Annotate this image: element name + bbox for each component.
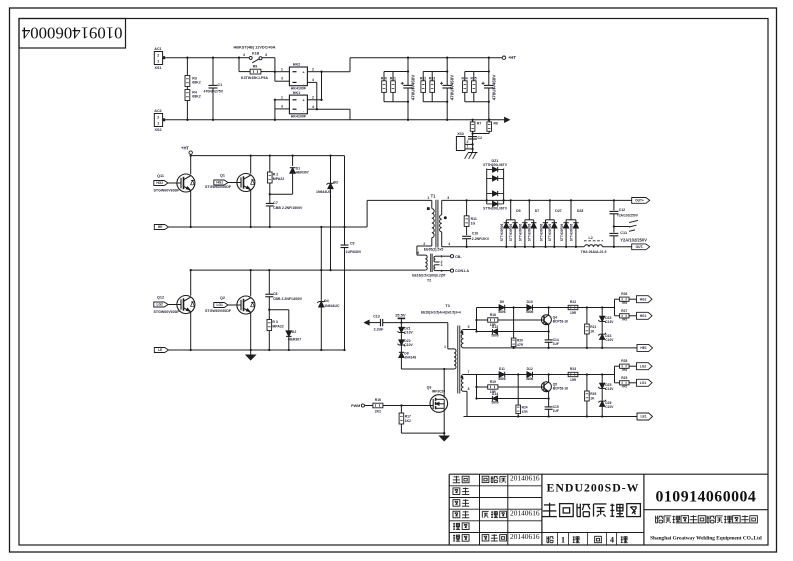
svg-text:7: 7 — [468, 370, 470, 374]
svg-text:HG1: HG1 — [640, 314, 647, 318]
svg-text:10R: 10R — [570, 311, 577, 315]
svg-text:2: 2 — [157, 116, 159, 120]
svg-text:STTH30R06: STTH30R06 — [509, 223, 513, 241]
svg-text:3: 3 — [281, 77, 283, 81]
electrolytic capacitor C4 with bleeders R32 R33 — [446, 58, 448, 86]
svg-text:5806: 5806 — [526, 377, 533, 381]
resistor R3 — [186, 58, 188, 76]
title block rows — [449, 485, 542, 487]
svg-text:3: 3 — [447, 196, 449, 200]
wire upper rail +HT — [191, 155, 345, 157]
dual diode DZ2 freewheel — [487, 193, 504, 195]
svg-text:Q11: Q11 — [157, 174, 164, 178]
net HE1 — [637, 344, 653, 351]
wire output branch vertical — [614, 366, 616, 383]
svg-text:47R: 47R — [517, 343, 524, 347]
svg-text:R29: R29 — [621, 376, 627, 380]
svg-text:IRF3C20: IRF3C20 — [432, 390, 445, 394]
connector XS3 — [456, 137, 465, 151]
svg-text:D9: D9 — [500, 300, 504, 304]
svg-text:C9: C9 — [350, 242, 355, 246]
svg-text:C2: C2 — [478, 136, 483, 140]
svg-text:HK4100F: HK4100F — [291, 115, 307, 119]
svg-text:CB-: CB- — [455, 255, 462, 259]
diode D9 — [504, 305, 506, 311]
T1 phase mark secondary — [444, 216, 447, 219]
svg-text:STTH30R06: STTH30R06 — [560, 223, 564, 241]
T2 core — [430, 254, 432, 272]
svg-text:HG2: HG2 — [640, 297, 647, 301]
resistor R22 — [568, 305, 578, 309]
svg-text:2.2NF/2KV: 2.2NF/2KV — [472, 237, 490, 241]
svg-text:4: 4 — [610, 536, 614, 545]
svg-text:LG1: LG1 — [640, 381, 647, 385]
wire driver rail LG2 — [464, 374, 615, 376]
svg-text:D27: D27 — [555, 209, 561, 213]
svg-text:HK1: HK1 — [293, 91, 300, 95]
wire contact output to bus — [322, 71, 351, 73]
svg-text:5: 5 — [468, 325, 470, 329]
net OUT+ — [632, 198, 650, 204]
svg-text:10R: 10R — [570, 378, 577, 382]
svg-text:HK2: HK2 — [293, 63, 300, 67]
drawing title (main circuit diagram) — [544, 504, 555, 506]
svg-text:.: . — [303, 82, 304, 86]
svg-text:1: 1 — [467, 145, 469, 149]
svg-text:1: 1 — [441, 254, 443, 258]
T2 secondary winding b — [434, 265, 435, 271]
svg-text:Q1: Q1 — [220, 174, 225, 178]
svg-text:R32: R32 — [420, 76, 426, 80]
T1 secondary — [441, 200, 443, 215]
svg-text:C10V: C10V — [605, 405, 614, 409]
wire driver rail HG2 — [477, 307, 615, 309]
svg-text:15.5V: 15.5V — [395, 312, 406, 317]
svg-text:C8: C8 — [273, 292, 278, 296]
svg-text:2: 2 — [312, 67, 314, 71]
resistor R11 snubber out — [465, 199, 467, 201]
svg-text:STTH30R06: STTH30R06 — [539, 223, 543, 241]
svg-text:7R5: 7R5 — [621, 385, 627, 389]
svg-text:LE1: LE1 — [641, 415, 647, 419]
svg-text:1: 1 — [281, 95, 283, 99]
title block outline — [449, 473, 768, 475]
svg-text:K3TW45KJ-P5A: K3TW45KJ-P5A — [241, 76, 268, 80]
net HG1 gate Q1 — [214, 180, 228, 185]
resistor R17 gate pulldown — [400, 404, 402, 406]
svg-text:3: 3 — [281, 105, 283, 109]
names column entries — [482, 476, 489, 482]
svg-text:D4: D4 — [324, 299, 329, 303]
capacitor C14 — [548, 332, 550, 340]
electrolytic capacitor C5 with bleeders R34 R35 — [488, 58, 490, 86]
svg-text:D10: D10 — [527, 300, 533, 304]
svg-text:EE16(0.5x2)60(0.2)5T: EE16(0.5x2)60(0.2)5T — [412, 274, 447, 278]
diode D13 — [477, 331, 549, 333]
svg-text:R31: R31 — [390, 76, 396, 80]
IGBT Q1 — [250, 154, 252, 156]
svg-text:MPA22: MPA22 — [273, 177, 284, 181]
svg-text:R11: R11 — [471, 217, 477, 221]
capacitor C15 — [548, 399, 550, 407]
svg-text:1: 1 — [561, 536, 565, 545]
svg-text:20140616: 20140616 — [510, 532, 540, 541]
svg-text:1UF/630V: 1UF/630V — [346, 250, 362, 254]
net LE lower rail — [154, 348, 168, 353]
resistor R19 — [477, 386, 488, 388]
svg-text:T1: T1 — [431, 194, 437, 199]
svg-text:T3: T3 — [445, 304, 449, 308]
T3 secondary upper — [461, 330, 463, 348]
svg-text:R17: R17 — [405, 414, 411, 418]
wire node to relays — [274, 58, 276, 81]
svg-text:20140616: 20140616 — [510, 508, 540, 517]
svg-text:R 2: R 2 — [273, 172, 278, 176]
svg-text:HBKST(4B) 12VDC/40A: HBKST(4B) 12VDC/40A — [234, 46, 276, 50]
svg-text:2: 2 — [157, 54, 159, 58]
wire relay bottom to bus — [317, 108, 350, 110]
svg-text:C10V: C10V — [404, 331, 413, 335]
document number box top-left (rotated) — [19, 19, 126, 49]
wire source return — [401, 432, 444, 434]
MOSFET Q3 — [443, 369, 445, 398]
wire lower rail — [191, 269, 426, 271]
page row: page 1 of 4 — [546, 536, 548, 542]
svg-text:2: 2 — [467, 140, 469, 144]
svg-text:4: 4 — [312, 105, 314, 109]
svg-text:1UF: 1UF — [553, 409, 559, 413]
svg-text:OUT+: OUT+ — [635, 199, 644, 203]
svg-text:R33: R33 — [429, 76, 435, 80]
terminal CON1.A — [450, 269, 453, 272]
zener ('DZ5', 'C13V') — [601, 373, 603, 375]
resistor R18 — [477, 319, 488, 321]
wire relay contacts parallel v1 — [316, 82, 318, 109]
net LG2 gate Q12 — [154, 302, 168, 307]
power ground lower bridge — [250, 350, 252, 355]
connector XS1 (AC input top) — [154, 52, 162, 65]
svg-text:OUT-: OUT- — [636, 245, 644, 249]
svg-text:4: 4 — [312, 78, 314, 82]
net LG1 — [637, 379, 653, 386]
svg-text:+HT: +HT — [181, 145, 189, 150]
svg-text:XS2: XS2 — [155, 128, 162, 132]
resistor R7 (Y branch) — [472, 120, 474, 122]
diode D10 — [532, 305, 534, 311]
wire output branch vertical — [614, 299, 616, 316]
svg-text:+HT: +HT — [508, 55, 516, 60]
resistor R32 — [422, 72, 424, 81]
zener ('DZ4', 'C10V') — [601, 322, 603, 335]
capacitor C7 snubber — [266, 202, 274, 204]
svg-text:R9: R9 — [253, 64, 258, 68]
zener ('DZ6', 'C10V') — [601, 389, 603, 402]
svg-text:470UF/450V: 470UF/450V — [450, 74, 455, 101]
connector XS2 (AC input bottom) — [154, 114, 162, 127]
T3 core — [457, 326, 459, 394]
svg-text:D3: D3 — [334, 181, 339, 185]
svg-text:D7: D7 — [535, 209, 540, 213]
net HG2 gate Q11 — [154, 181, 168, 186]
svg-text:3: 3 — [441, 263, 443, 267]
svg-text:PWM: PWM — [351, 404, 360, 408]
diode pair D27 — [549, 199, 551, 201]
capacitor C9 dc-block — [344, 156, 346, 245]
svg-text:MPA22: MPA22 — [272, 324, 283, 328]
svg-text:1N644UC: 1N644UC — [324, 304, 340, 308]
relay HK1 — [289, 95, 307, 114]
svg-text:4: 4 — [448, 242, 450, 246]
T1 phase mark primary — [427, 207, 430, 210]
net PWM input — [361, 404, 364, 407]
svg-text:K1B: K1B — [252, 52, 260, 56]
diode pair D28 — [570, 199, 572, 201]
resistor R25 bleed — [586, 373, 588, 375]
svg-text:R7: R7 — [477, 122, 481, 126]
svg-text:STTH30R06: STTH30R06 — [528, 223, 532, 241]
svg-text:STTH30R06: STTH30R06 — [548, 223, 552, 241]
svg-text:R35: R35 — [470, 76, 476, 80]
svg-text:C13V: C13V — [605, 387, 614, 391]
electrolytic capacitor C3 with bleeders R30 R31 — [407, 58, 409, 86]
resistor R23 — [568, 372, 578, 376]
wire relay contacts parallel v2 — [321, 72, 323, 100]
svg-text:C11: C11 — [620, 231, 627, 235]
svg-text:R16: R16 — [375, 398, 381, 402]
earth ground output filter — [613, 225, 615, 227]
svg-text:HER307: HER307 — [296, 171, 309, 175]
inductor L2 — [584, 240, 603, 242]
svg-text:C7: C7 — [273, 201, 278, 205]
wire secondary positive line — [442, 199, 632, 201]
resistor R4 — [186, 87, 188, 90]
net OUT- — [632, 244, 650, 250]
svg-text:C10V: C10V — [605, 338, 614, 342]
capacitor C13 series — [369, 322, 380, 324]
svg-text:HE: HE — [158, 225, 163, 229]
svg-text:2K2: 2K2 — [375, 409, 381, 413]
svg-text:1: 1 — [157, 122, 159, 126]
page row separators — [557, 533, 559, 546]
svg-text:R34: R34 — [461, 76, 467, 80]
svg-text:XS3: XS3 — [457, 132, 464, 136]
svg-text:5806: 5806 — [498, 377, 505, 381]
resistor R9 bypass — [238, 58, 240, 72]
transistor Q5 — [547, 373, 549, 375]
svg-text:R30: R30 — [381, 76, 387, 80]
svg-text:R22: R22 — [570, 300, 576, 304]
capacitor C11 output filter — [609, 232, 618, 234]
IGBT Q12 — [190, 269, 192, 271]
wire DC bus minus bottom — [350, 119, 505, 121]
resistor R8 (Y branch) — [488, 120, 490, 122]
svg-text:Y2A/102/250V: Y2A/102/250V — [620, 238, 647, 243]
svg-text:LG2: LG2 — [640, 364, 647, 368]
svg-text:68K2: 68K2 — [192, 95, 200, 99]
company name Chinese — [655, 516, 657, 523]
svg-text:R8: R8 — [494, 122, 498, 126]
svg-text:D5: D5 — [516, 209, 521, 213]
svg-text:BCP53-16: BCP53-16 — [553, 387, 568, 391]
wire N input bottom — [165, 119, 350, 121]
resistor R21 bleed — [586, 306, 588, 308]
svg-text:7R5: 7R5 — [621, 318, 627, 322]
svg-text:Q2: Q2 — [220, 296, 225, 300]
svg-text:C12: C12 — [619, 208, 625, 212]
transistor Q4 — [547, 306, 549, 308]
svg-text:D13: D13 — [492, 325, 498, 329]
svg-text:Y2A/102/250V: Y2A/102/250V — [617, 213, 639, 217]
resistor R34 — [464, 72, 466, 81]
svg-text:R23: R23 — [570, 367, 576, 371]
svg-text:R26: R26 — [621, 292, 627, 296]
T3 secondary lower — [461, 375, 463, 392]
resistor R20 vertical — [512, 306, 514, 308]
svg-text:STGW60V60DF: STGW60V60DF — [205, 185, 232, 189]
zener DZ1 aux — [400, 323, 402, 328]
T2 secondary winding a — [434, 256, 435, 262]
svg-text:D28: D28 — [577, 209, 583, 213]
wire snubber node lower — [269, 309, 289, 311]
svg-text:010914060004: 010914060004 — [656, 489, 757, 506]
svg-text:470UF/450V: 470UF/450V — [491, 74, 496, 101]
wire output negative rail — [442, 246, 584, 248]
svg-text:R18: R18 — [490, 313, 496, 317]
resistor R24 vertical — [517, 373, 519, 375]
svg-text:D2: D2 — [292, 330, 297, 334]
net arrow 15V supply in — [364, 320, 369, 325]
svg-text:2.2UF: 2.2UF — [374, 328, 385, 332]
capacitor C12 output filter — [613, 199, 615, 201]
svg-text:L2: L2 — [589, 236, 593, 240]
svg-text:47R: 47R — [522, 410, 529, 414]
svg-text:1: 1 — [427, 196, 429, 200]
svg-text:Q12: Q12 — [157, 296, 164, 300]
svg-text:4: 4 — [441, 269, 443, 273]
earth ground (input filter) — [468, 152, 478, 154]
svg-text:5806: 5806 — [491, 333, 498, 337]
svg-text:EE28(3x0.5)4x4(3x0.5)3+4: EE28(3x0.5)4x4(3x0.5)3+4 — [421, 310, 461, 314]
transil D3 — [329, 154, 331, 156]
wire DC bus plus top — [350, 57, 502, 59]
svg-text:R28: R28 — [621, 359, 627, 363]
wire zener chain to drain node — [401, 368, 451, 370]
svg-text:20140616: 20140616 — [510, 473, 540, 482]
svg-text:HER307: HER307 — [288, 338, 301, 342]
relay HK2 — [289, 67, 307, 86]
svg-text:.: . — [303, 108, 304, 112]
resistor R28 — [615, 365, 620, 367]
diode pair D5 — [510, 199, 512, 201]
svg-text:BCP53-16: BCP53-16 — [553, 320, 568, 324]
svg-text:1: 1 — [157, 60, 159, 64]
svg-text:STGW60V60DF: STGW60V60DF — [154, 310, 181, 314]
svg-text:STGW60V60DF: STGW60V60DF — [205, 309, 232, 313]
svg-text:XS1: XS1 — [155, 66, 162, 70]
terminal CB- — [450, 255, 453, 258]
capacitor C10 snubber out — [462, 235, 471, 237]
svg-text:8: 8 — [468, 387, 470, 391]
net LG2 — [637, 363, 653, 370]
svg-text:3: 3 — [265, 53, 267, 57]
svg-text:4: 4 — [243, 53, 245, 57]
svg-text:D12: D12 — [527, 367, 533, 371]
svg-text:STTH30R06: STTH30R06 — [500, 223, 504, 241]
svg-text:010914060004: 010914060004 — [21, 23, 122, 42]
resistor R35 — [473, 72, 475, 81]
resistor R26 — [615, 298, 620, 300]
net HE mid rail — [154, 225, 168, 230]
svg-text:1G: 1G — [471, 222, 476, 226]
svg-text:1: 1 — [281, 67, 283, 71]
transil D4 — [320, 227, 322, 302]
zener ('DZ3', 'C13V') — [601, 306, 603, 308]
svg-text:D11: D11 — [499, 367, 505, 371]
svg-text:2: 2 — [423, 242, 425, 246]
svg-text:STTH200L06TV: STTH200L06TV — [483, 207, 508, 211]
svg-text:AC1: AC1 — [154, 47, 161, 51]
svg-text:CON1.A: CON1.A — [455, 269, 469, 273]
svg-text:R27: R27 — [621, 309, 627, 313]
wire driver left vertical — [476, 375, 478, 399]
net LG1 gate Q2 — [214, 303, 228, 308]
svg-text:C10V: C10V — [404, 343, 413, 347]
svg-text:1K: 1K — [590, 329, 595, 333]
diode D14 — [477, 398, 549, 400]
resistor R16 gate — [373, 403, 383, 408]
wire T3 pin5 riser — [476, 308, 478, 330]
capacitor C2 — [468, 136, 477, 138]
svg-text:ENDU200SD-W: ENDU200SD-W — [547, 480, 640, 494]
title block columns — [479, 474, 481, 545]
wire snubber node — [270, 193, 293, 195]
svg-text:2: 2 — [312, 95, 314, 99]
svg-text:STTH30R06: STTH30R06 — [570, 223, 574, 241]
resistor R29 — [615, 382, 620, 384]
svg-text:1N644UC: 1N644UC — [316, 190, 332, 194]
resistor R33 — [431, 72, 433, 81]
svg-text:CBB 2.2NF/1600V: CBB 2.2NF/1600V — [273, 297, 303, 301]
diode D11 — [504, 372, 506, 378]
wire L input top — [165, 57, 239, 59]
net LE1 — [637, 413, 653, 420]
zener DZ2 aux — [400, 333, 402, 340]
svg-text:C1: C1 — [218, 83, 223, 87]
net HG2 — [637, 296, 653, 303]
svg-text:1: 1 — [444, 345, 446, 349]
svg-text:1K: 1K — [590, 396, 595, 400]
svg-text:EE65(2).5x5: EE65(2).5x5 — [424, 247, 444, 251]
T1 core — [435, 200, 437, 248]
wire mid rail HE — [169, 226, 368, 228]
svg-text:1N4148: 1N4148 — [404, 356, 416, 360]
net HG1 — [637, 312, 653, 319]
svg-text:470NF/275V: 470NF/275V — [204, 90, 224, 94]
svg-text:1K2: 1K2 — [405, 419, 411, 423]
terminal +HT bus — [502, 56, 505, 59]
wire driver bottom rail — [464, 347, 638, 349]
svg-text:Q3: Q3 — [427, 385, 432, 389]
svg-text:STGW60V60DF: STGW60V60DF — [154, 189, 181, 193]
svg-text:HE1: HE1 — [640, 346, 647, 350]
svg-text:CBB 2.2NF/1600V: CBB 2.2NF/1600V — [273, 206, 303, 210]
svg-text:STTH200L06TV: STTH200L06TV — [483, 163, 508, 167]
svg-text:AC2: AC2 — [154, 109, 161, 113]
svg-text:LG1: LG1 — [217, 303, 224, 307]
resistor R5 snubber — [267, 320, 272, 331]
svg-text:R19: R19 — [490, 380, 496, 384]
svg-text:6: 6 — [417, 251, 419, 255]
